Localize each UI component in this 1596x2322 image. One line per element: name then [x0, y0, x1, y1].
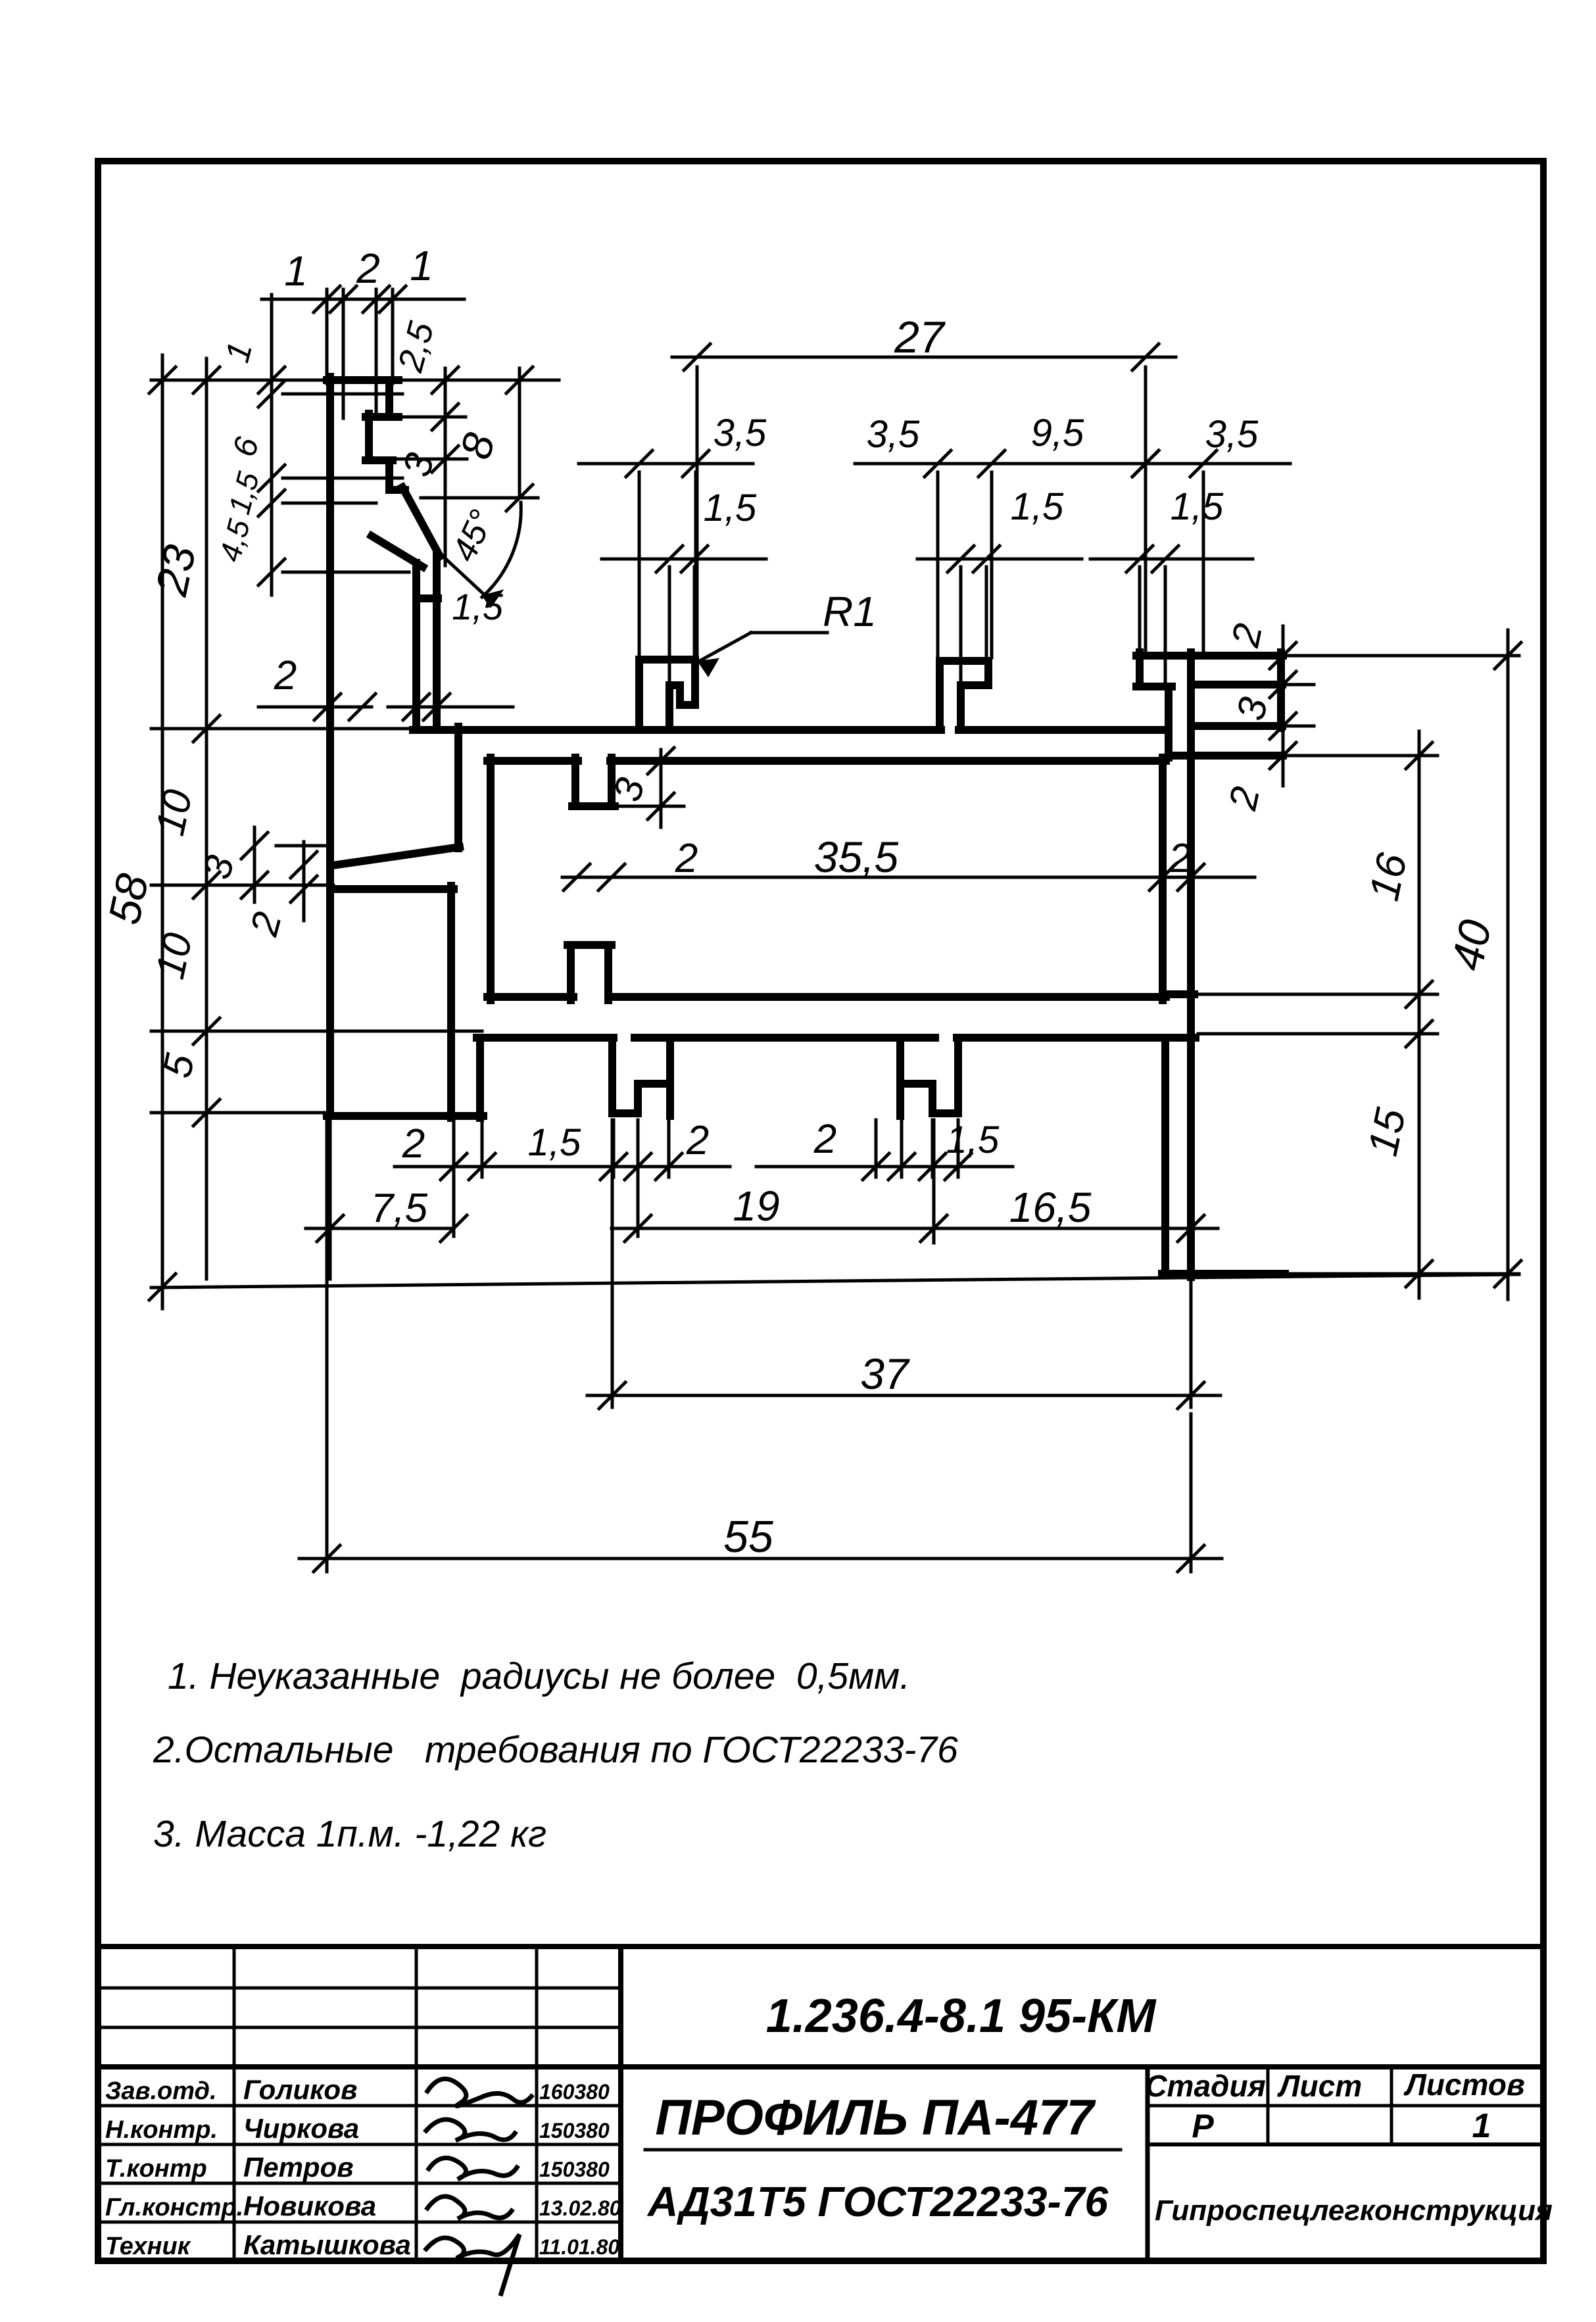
dim 2 wedge: [241, 842, 317, 940]
profile stem right wall: [433, 553, 441, 730]
profile foot bottom edge left: [327, 1112, 483, 1120]
dim label 2 wall: [1168, 836, 1191, 881]
profile chamber right wall: [447, 886, 455, 1118]
title value 1: [1472, 2107, 1491, 2145]
dim column 1-6-1.5-4.5: [258, 295, 409, 595]
svg-text:2: 2: [1168, 836, 1191, 881]
title block signatures column text: [105, 2074, 621, 2260]
dim chamfer extension slant: [437, 551, 492, 602]
title block grid: [98, 1947, 1543, 2261]
dim 27: [672, 312, 1176, 654]
svg-text:2.Остальные требования по ГО: 2.Остальные требования по ГОСТ22233-76: [153, 1729, 958, 1771]
svg-text:Т.контр: Т.контр: [105, 2155, 207, 2183]
profile cavity ceiling: [487, 757, 1166, 765]
dim bottom hooks B: [756, 1120, 1013, 1180]
dim label 2 r2: [1221, 783, 1269, 814]
title block signature scribbles: [426, 2079, 531, 2294]
dim 19: [612, 1120, 947, 1243]
svg-text:Петров: Петров: [243, 2152, 354, 2183]
svg-text:АД31Т5 ГОСТ22233-76: АД31Т5 ГОСТ22233-76: [646, 2178, 1108, 2225]
dim 40: [1441, 630, 1521, 1299]
dim 9.5: [1031, 412, 1159, 477]
dim 37: [587, 1120, 1221, 1409]
svg-text:Катышкова: Катышкова: [243, 2229, 411, 2260]
dim label 2 r1: [1223, 619, 1271, 651]
dim extension lines left: [151, 380, 482, 1113]
dim label 1 a: [284, 247, 308, 295]
title header listov: [1403, 2068, 1524, 2102]
svg-text:10: 10: [147, 786, 201, 840]
profile left flange slot top edge: [366, 413, 399, 421]
dim 3 rib: [605, 748, 684, 827]
dim label 3 r: [1228, 693, 1276, 724]
profile left flange slot bottom edge: [366, 456, 393, 464]
note 1: [168, 1655, 910, 1697]
dim 1.5 a: [602, 487, 766, 704]
dim 16: [1360, 731, 1432, 1018]
profile left flange top edge: [327, 376, 399, 384]
svg-text:Лист: Лист: [1277, 2069, 1362, 2103]
dim 3.5 a: [579, 412, 767, 654]
svg-text:3,5: 3,5: [713, 412, 767, 454]
profile cavity right wall: [1159, 758, 1167, 1000]
profile body top edge: [413, 726, 1169, 734]
svg-text:2: 2: [813, 1117, 836, 1162]
profile bottom right foot edge: [1162, 1270, 1285, 1278]
svg-text:3: 3: [195, 851, 243, 884]
svg-text:R1: R1: [823, 588, 877, 635]
svg-text:1,5: 1,5: [452, 586, 504, 627]
dim 15: [1359, 1009, 1432, 1298]
dim bottom hooks A: [395, 1120, 730, 1236]
svg-text:1: 1: [284, 247, 308, 295]
svg-text:Листов: Листов: [1403, 2068, 1524, 2102]
svg-text:Р: Р: [1192, 2108, 1214, 2144]
leader R1: [698, 588, 877, 676]
svg-text:Гипроспецлегконструкция: Гипроспецлегконструкция: [1155, 2194, 1553, 2227]
svg-text:2: 2: [1221, 783, 1269, 814]
profile leg right wall: [476, 1038, 484, 1118]
dim label 2 bb: [686, 1118, 709, 1163]
dim column 2.5-3: [395, 367, 467, 566]
dim line 1-2-1 top: [262, 286, 464, 418]
svg-text:6: 6: [226, 433, 266, 461]
profile body left wall upper: [454, 727, 462, 848]
svg-text:2: 2: [675, 836, 698, 881]
profile floor rib: [568, 945, 612, 1000]
dim 2 left wall: [258, 653, 375, 720]
dim 1.5 c: [1090, 485, 1253, 682]
dim label 1 b: [410, 242, 433, 289]
dim 3 wedge: [195, 827, 332, 902]
dim label 45deg: [445, 504, 502, 568]
svg-text:2: 2: [274, 653, 297, 698]
svg-text:37: 37: [860, 1349, 910, 1398]
dim label 6: [226, 433, 266, 461]
profile top hook 1: [639, 660, 695, 730]
svg-text:Н.контр.: Н.контр.: [105, 2116, 218, 2144]
svg-text:1.236.4-8.1 95-КМ: 1.236.4-8.1 95-КМ: [766, 1990, 1157, 2043]
svg-text:2: 2: [402, 1121, 425, 1167]
dim 1.5 b: [917, 485, 1082, 683]
profile top right inner edge a: [1194, 681, 1282, 689]
svg-text:Новикова: Новикова: [243, 2190, 376, 2221]
svg-text:15: 15: [1359, 1104, 1415, 1160]
dim label 1.5 ba: [528, 1121, 581, 1164]
dim label 2 rib: [675, 836, 698, 881]
svg-text:7,5: 7,5: [371, 1186, 428, 1231]
profile left outer wall: [326, 377, 334, 1116]
svg-text:Чиркова: Чиркова: [243, 2113, 359, 2144]
dim label 1.5 bb: [946, 1119, 1000, 1161]
title name AD31T5 GOST22233-76: [646, 2178, 1108, 2225]
dim 3.5 c: [1118, 413, 1290, 652]
title code 1.236.4-8.1 95-KM: [766, 1990, 1157, 2043]
dim label 10 b: [147, 929, 201, 983]
svg-text:1. Неуказанные радиусы не бол: 1. Неуказанные радиусы не более 0,5мм.: [168, 1655, 910, 1697]
svg-text:10: 10: [147, 929, 201, 983]
note 3: [153, 1813, 546, 1855]
svg-text:58: 58: [99, 869, 158, 929]
svg-text:3,5: 3,5: [1205, 413, 1259, 456]
title header stadiya: [1145, 2069, 1265, 2103]
svg-text:160380: 160380: [539, 2080, 610, 2104]
svg-text:40: 40: [1441, 915, 1501, 975]
svg-text:45°: 45°: [445, 504, 502, 568]
dim label 1.5 a: [222, 468, 266, 518]
title org giprospetslegkonstruktsiya: [1155, 2194, 1553, 2227]
dim label 2 bc: [813, 1117, 836, 1162]
svg-text:3. Масса 1п.м. -1,22 кг: 3. Масса 1п.м. -1,22 кг: [153, 1813, 546, 1855]
svg-text:150380: 150380: [539, 2158, 610, 2181]
svg-text:2: 2: [241, 907, 290, 941]
profile left flange right wall lower: [385, 460, 393, 490]
dim label 2.5: [391, 317, 442, 376]
svg-text:3: 3: [395, 448, 443, 481]
dim label 2 a: [356, 245, 380, 292]
profile body bottom edge: [477, 1034, 1196, 1042]
profile 45deg chamfer outer: [402, 487, 440, 556]
title header list: [1277, 2069, 1362, 2103]
dim label 1 c: [218, 338, 260, 366]
profile wedge lip slant: [333, 847, 460, 865]
svg-text:2: 2: [1223, 619, 1271, 651]
svg-text:150380: 150380: [539, 2119, 610, 2142]
svg-text:1,5: 1,5: [704, 487, 757, 529]
dim 58: [99, 355, 176, 1309]
svg-text:Зав.отд.: Зав.отд.: [105, 2077, 217, 2105]
dim 45deg arc: [482, 502, 521, 607]
profile bottom hook A: [612, 1038, 670, 1116]
dim column 10-10-5: [193, 729, 220, 1279]
svg-text:19: 19: [733, 1182, 779, 1230]
profile chamfer inner slant: [372, 536, 438, 598]
svg-text:Техник: Техник: [105, 2233, 191, 2260]
profile right chamber bottom: [1163, 990, 1194, 998]
svg-text:27: 27: [894, 312, 946, 362]
svg-text:2,5: 2,5: [391, 317, 442, 376]
profile bottom right channel wall: [1161, 1038, 1169, 1274]
profile top hook 2: [940, 661, 988, 730]
svg-text:13.02.80: 13.02.80: [539, 2196, 621, 2220]
profile left flange right wall upper: [385, 380, 393, 417]
profile stem left wall: [412, 563, 420, 730]
svg-text:23: 23: [146, 541, 205, 600]
dim 1.5 chamfer: [388, 586, 513, 720]
svg-text:1,5: 1,5: [946, 1119, 1000, 1161]
profile right wall: [1187, 652, 1195, 1277]
profile left flange slot inner wall: [365, 414, 373, 460]
svg-text:16,5: 16,5: [1009, 1184, 1092, 1231]
svg-text:1,5: 1,5: [222, 468, 266, 518]
svg-text:16: 16: [1360, 849, 1416, 905]
svg-text:3,5: 3,5: [867, 413, 920, 456]
profile chamber top edge: [330, 885, 454, 893]
svg-text:1,5: 1,5: [1011, 485, 1064, 528]
note 2: [153, 1729, 958, 1771]
dim 23: [146, 358, 220, 742]
svg-text:1: 1: [218, 338, 260, 366]
profile left flange step: [389, 486, 405, 494]
dim extension lines right: [1197, 656, 1519, 1274]
dim 8: [402, 367, 559, 511]
profile cavity floor: [487, 993, 1166, 1001]
svg-text:Стадия: Стадия: [1145, 2069, 1265, 2103]
profile top right inner edge b: [1194, 722, 1282, 730]
dim 3.5 b: [855, 413, 1148, 658]
dim bottom long extension line: [151, 1274, 1519, 1288]
title name PROFIL PA-477: [655, 2090, 1096, 2146]
dim right col 2-3-2: [1270, 626, 1314, 786]
profile cavity left wall: [487, 758, 495, 1000]
profile top right cap edge: [1136, 652, 1283, 660]
dim label 3 flange: [395, 448, 443, 481]
dim 55: [299, 1120, 1222, 1572]
profile bottom hook B: [900, 1038, 958, 1116]
profile ceiling rib: [572, 758, 615, 806]
dim label 10 a: [147, 786, 201, 840]
profile top right hook lip: [1136, 652, 1172, 758]
svg-text:1: 1: [1472, 2107, 1491, 2145]
svg-text:1: 1: [410, 242, 433, 289]
svg-text:55: 55: [723, 1512, 773, 1562]
svg-text:9,5: 9,5: [1031, 412, 1084, 454]
dim 16.5: [934, 1184, 1218, 1242]
svg-text:4,5: 4,5: [212, 516, 256, 566]
svg-text:1,5: 1,5: [528, 1121, 581, 1164]
title value R: [1192, 2108, 1214, 2144]
dim label 2 ba: [402, 1121, 425, 1167]
profile right flange top edge: [1169, 752, 1283, 760]
profile top right cap right edge: [1277, 652, 1285, 728]
svg-text:2: 2: [686, 1118, 709, 1163]
svg-text:Голиков: Голиков: [243, 2074, 357, 2105]
dim 35.5: [562, 833, 1255, 890]
svg-text:2: 2: [356, 245, 380, 292]
svg-text:1,5: 1,5: [1171, 485, 1224, 528]
svg-text:Гл.констр.: Гл.констр.: [105, 2194, 243, 2221]
svg-text:11.01.80: 11.01.80: [539, 2235, 619, 2259]
svg-text:35,5: 35,5: [814, 833, 899, 881]
dim 7.5: [306, 1120, 467, 1279]
dim label 5: [155, 1050, 204, 1082]
dim label 4.5: [212, 516, 256, 566]
svg-text:ПРОФИЛЬ ПА-477: ПРОФИЛЬ ПА-477: [655, 2090, 1096, 2146]
